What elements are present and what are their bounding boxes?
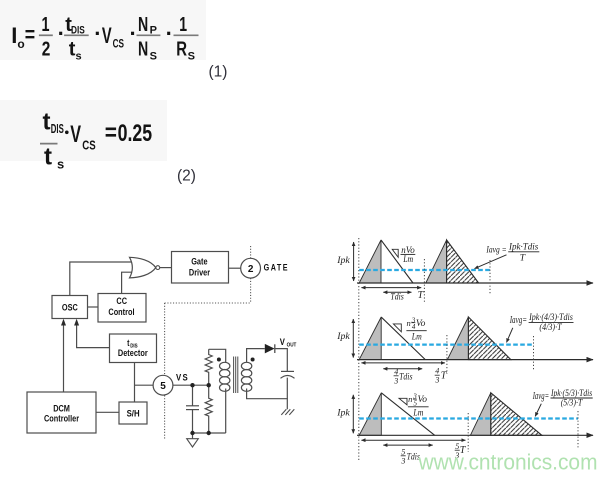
svg-text:3: 3 <box>434 376 439 385</box>
wf1 slope fraction bar <box>401 253 416 255</box>
wf3 Ipk arrow <box>352 395 354 434</box>
wf3 Iavg fraction bar <box>551 397 593 399</box>
block diagram labels <box>44 256 297 424</box>
arrowhead into OSC from DCM controller <box>61 319 66 326</box>
svg-text:Ipk: Ipk <box>336 331 350 342</box>
wire output cap to ground <box>286 378 288 399</box>
transformer core <box>234 357 238 394</box>
svg-text:Vo: Vo <box>418 394 428 404</box>
svg-text:Lm: Lm <box>402 254 413 264</box>
OR gate U1 <box>130 257 156 278</box>
svg-text:t: t <box>43 109 51 136</box>
svg-text:0.25: 0.25 <box>118 120 153 147</box>
block DCM Controller <box>27 392 96 433</box>
svg-text:T: T <box>520 254 526 264</box>
svg-text:N: N <box>138 38 148 60</box>
dot <box>65 131 69 135</box>
wf2 Tdis fraction bar <box>394 375 399 377</box>
dashed horizontal segment <box>165 302 251 304</box>
svg-text:CS: CS <box>82 137 96 152</box>
svg-text:V: V <box>70 121 81 148</box>
wf3 annotation arrow <box>535 404 541 417</box>
wf2 Ipk arrow <box>352 319 354 358</box>
wf2 gray rising area triangle 2 <box>447 317 468 360</box>
svg-text:CS: CS <box>113 37 124 51</box>
svg-text:(2): (2) <box>177 168 196 185</box>
svg-text:t: t <box>44 143 52 170</box>
resistor R2 (lower divider) <box>205 385 212 433</box>
svg-text:Iavg=: Iavg= <box>509 315 527 326</box>
svg-text:·: · <box>94 21 101 46</box>
wf1 dotted line at end of Iavg <box>489 260 491 295</box>
wf3 T fraction bar <box>455 449 460 451</box>
svg-text:n: n <box>408 394 412 404</box>
wf3 Tdis fraction bar <box>401 455 406 457</box>
svg-text:1: 1 <box>42 14 50 36</box>
svg-text:V: V <box>280 336 285 347</box>
wf2 axis <box>357 359 593 361</box>
OR gate output bubble <box>156 266 160 270</box>
wire OR gate output to Gate Driver <box>160 267 172 269</box>
wf3 gray rising area triangle 1 <box>359 393 381 436</box>
dashed stub above pin2 <box>250 246 252 258</box>
capacitor C1 leads <box>192 385 194 406</box>
formula background <box>0 100 167 161</box>
svg-text:2: 2 <box>42 38 51 60</box>
svg-text:(4/3)·T: (4/3)·T <box>539 322 562 332</box>
svg-text:CC: CC <box>116 295 127 306</box>
wf3 hatched discharge area triangle 2 <box>491 393 542 436</box>
wf3 triangle 1 outline <box>381 393 434 436</box>
svg-text:(5/3)·T: (5/3)·T <box>561 397 583 407</box>
svg-text:Controller: Controller <box>44 413 80 424</box>
svg-text:V: V <box>102 23 112 48</box>
svg-text:www.cntronics.com: www.cntronics.com <box>418 450 598 475</box>
earth ground symbol <box>281 409 294 415</box>
wf3 axis <box>357 434 593 436</box>
wf3 gray rising area triangle 2 <box>470 393 490 436</box>
svg-text:Ipk: Ipk <box>336 407 350 418</box>
svg-text:N: N <box>138 14 148 36</box>
junction nodes bottom rail <box>190 431 194 435</box>
wf3 dotted line at end of Iavg <box>577 411 579 449</box>
svg-text:Vo: Vo <box>416 318 426 328</box>
wire secondary bottom rail <box>247 389 288 410</box>
svg-text:4: 4 <box>394 367 398 376</box>
wf3 slope indicator <box>399 398 407 405</box>
wf2 period arrow <box>361 362 445 364</box>
capacitor C1 plates <box>186 405 199 407</box>
svg-text:T: T <box>441 371 448 382</box>
wf2 Iavg dashed line <box>359 344 533 346</box>
dashed line below pin2 <box>250 278 252 303</box>
svg-text:Lm: Lm <box>413 407 424 417</box>
svg-text:Ipk·Tdis: Ipk·Tdis <box>508 241 539 251</box>
svg-text:·: · <box>58 21 65 46</box>
wf1 axis <box>357 282 593 284</box>
svg-text:DIS: DIS <box>51 122 64 136</box>
formula background <box>0 0 206 60</box>
wf2 dotted line at end of Iavg <box>533 336 535 370</box>
wire pin5 to divider node <box>173 384 209 386</box>
svg-text:OUT: OUT <box>287 342 297 349</box>
wf1 Tdis arrow <box>383 291 411 293</box>
wf3 Tdis arrow <box>383 444 432 446</box>
svg-text:Tdis: Tdis <box>399 372 413 382</box>
block CC Control <box>98 294 146 323</box>
block S/H <box>119 402 147 424</box>
svg-text:OSC: OSC <box>62 302 78 313</box>
svg-text:s: s <box>57 157 64 172</box>
wf2 triangle 1 outline <box>381 317 425 360</box>
output capacitor C2 plates <box>281 370 294 372</box>
wf1 Iavg dashed line <box>359 269 490 271</box>
VS sense network <box>173 349 226 438</box>
wf1 gray rising area triangle 2 <box>426 240 447 283</box>
wire Gate Driver to pin2 <box>229 267 241 269</box>
svg-text:S: S <box>188 51 195 63</box>
svg-text:S: S <box>150 51 157 63</box>
svg-text:Iavg=: Iavg= <box>532 391 549 402</box>
wf2 slope fraction bar <box>406 330 426 332</box>
block OSC <box>52 296 88 319</box>
svg-text:R: R <box>176 38 187 60</box>
top rail wire to primary <box>209 349 226 362</box>
left dotted reference line <box>358 238 360 460</box>
svg-text:Driver: Driver <box>189 267 211 278</box>
wf1 dotted line at T <box>423 259 425 302</box>
svg-text:3: 3 <box>393 376 398 385</box>
svg-text:5: 5 <box>160 381 166 392</box>
wf1 slope indicator <box>392 249 398 257</box>
wire tDIS Detector to OSC (with arrow) <box>77 325 110 348</box>
wf1 Iavg fraction bar <box>508 251 539 253</box>
dashed chip boundary from GATE pin <box>165 246 251 440</box>
wire secondary top to diode <box>247 349 265 363</box>
wf2 dotted line at 4/3T <box>446 335 448 374</box>
wf1 Ipk arrow <box>353 242 355 281</box>
secondary circuit <box>247 349 295 410</box>
wf1 triangle 1 outline <box>381 240 413 283</box>
diode D1 <box>265 344 275 354</box>
svg-text:T: T <box>418 290 425 301</box>
wf2 hatched discharge area triangle 2 <box>468 317 510 360</box>
svg-text:Control: Control <box>108 306 134 317</box>
wire DCM Controller to OSC (with arrow) <box>63 325 65 393</box>
svg-text:Gate: Gate <box>191 256 208 267</box>
svg-text:GATE: GATE <box>264 263 289 273</box>
wf3 dotted line at 5/3T <box>467 413 469 452</box>
wf3 period arrow <box>361 439 465 441</box>
svg-text:4: 4 <box>435 367 439 376</box>
svg-text:2: 2 <box>248 264 254 275</box>
wf3 slope mini fraction bar <box>413 398 417 400</box>
svg-text:Tdis: Tdis <box>390 291 404 301</box>
wf2 slope indicator <box>393 324 401 332</box>
transformer T1 secondary winding <box>241 362 251 391</box>
ground arrow symbol <box>187 439 199 447</box>
svg-text:=: = <box>25 22 35 47</box>
wf2 gray rising area triangle 1 <box>359 317 381 360</box>
pin 5 circle <box>153 375 173 395</box>
wf2 slope mini fraction bar <box>411 322 415 324</box>
wf2 annotation arrow <box>507 328 513 343</box>
wire diode to Vout node <box>275 349 287 372</box>
svg-text:Ipk·(4/3)·Tdis: Ipk·(4/3)·Tdis <box>528 312 573 322</box>
svg-text:n: n <box>407 318 411 328</box>
wire DCM Controller to S/H <box>96 411 119 413</box>
wire tDIS Detector bottom to S/H top <box>134 363 136 403</box>
wire OSC to CC Control <box>88 306 99 308</box>
svg-text:5: 5 <box>401 448 405 457</box>
wf1 annotation arrow <box>475 255 507 269</box>
svg-text:s: s <box>76 51 82 63</box>
svg-text:Ipk: Ipk <box>336 255 350 266</box>
svg-text:S/H: S/H <box>127 408 140 419</box>
secondary phase dot <box>251 358 255 362</box>
svg-text:3: 3 <box>400 457 405 466</box>
block tDIS Detector <box>110 334 157 363</box>
dashed vertical boundary <box>164 303 166 440</box>
primary phase dot <box>217 358 221 362</box>
wf1 T arrow <box>361 287 421 289</box>
svg-text:(1): (1) <box>209 64 228 81</box>
svg-text:Iavg =: Iavg = <box>486 246 507 256</box>
arrowhead into OSC from tDIS detector <box>74 319 79 326</box>
svg-text:Lm: Lm <box>411 331 422 341</box>
wire OSC top to OR gate input <box>70 262 131 296</box>
resistor R1 (upper divider) <box>205 349 212 385</box>
wire CC Control top to OR gate input <box>122 272 133 293</box>
primary winding spine bottom <box>225 389 227 434</box>
svg-text:Detector: Detector <box>118 347 148 358</box>
wf2 Tdis arrow <box>383 368 422 370</box>
svg-text:VS: VS <box>176 372 189 383</box>
wf2 T fraction bar <box>435 374 440 376</box>
wf3 Iavg dashed line <box>359 417 578 419</box>
transformer T1 primary winding <box>220 362 230 391</box>
svg-text:1: 1 <box>179 14 187 36</box>
wire node to pin5 <box>135 384 154 386</box>
wire ground stub <box>192 433 194 439</box>
svg-text:o: o <box>17 37 24 51</box>
pin 2 circle <box>241 258 261 278</box>
svg-text:=: = <box>105 120 117 147</box>
wf3 slope fraction bar <box>408 406 429 408</box>
wf1 hatched discharge area triangle 2 <box>447 240 479 283</box>
svg-text:·: · <box>130 21 137 46</box>
wf1 gray rising area triangle 1 <box>359 240 381 283</box>
wf2 Iavg fraction bar <box>529 321 574 323</box>
junction node at pin5 wire <box>190 383 194 387</box>
bottom rail wire <box>193 432 226 434</box>
block Gate Driver <box>172 252 229 284</box>
svg-text:·: · <box>166 21 173 46</box>
